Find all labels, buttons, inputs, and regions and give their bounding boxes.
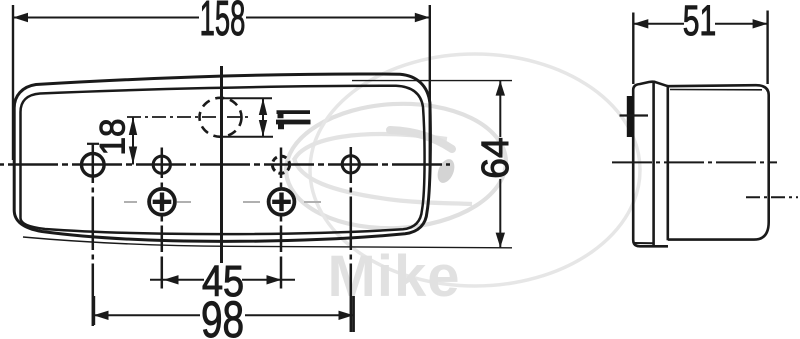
dim 158 arrow left (13, 13, 28, 22)
side view mounting tab (627, 96, 633, 137)
svg-text:Mike: Mike (328, 244, 461, 309)
svg-text:98: 98 (201, 291, 244, 339)
screw 2 cross (272, 200, 291, 204)
svg-text:158: 158 (200, 0, 246, 46)
hole circle 2 (153, 156, 170, 173)
hole circle 3 vertical centerline / 45 extension (280, 148, 283, 289)
dim 158 right extension line (429, 5, 431, 163)
dim 158 arrow right (415, 13, 430, 22)
dim text 158 (94, 0, 716, 339)
watermark teardrop (434, 157, 457, 186)
horizontal centerline of front view (0, 163, 450, 166)
hole circle 2 vertical centerline / 45 extension (161, 148, 164, 289)
dim 11 vertical line with arrows (262, 98, 264, 136)
dim 45 arrows (164, 275, 179, 284)
dim 51 left extension line (632, 13, 634, 85)
dim 64 bottom extension (tangent) line (23, 237, 512, 248)
dim 158 left extension line (12, 5, 14, 160)
dim 11 top bar (223, 97, 272, 99)
oval hole horizontal centerline (127, 116, 250, 118)
lamp lens inner outline (21, 86, 425, 234)
tab centerline (620, 114, 649, 116)
side view housing outline (668, 85, 769, 240)
dim 51 line (633, 23, 684, 25)
dim 98 arrows (94, 311, 109, 320)
dim 158 line (13, 17, 199, 19)
hole circle 1 vertical centerline / 98 extension (92, 144, 95, 327)
screw 1 side dashes (124, 201, 137, 203)
hole circle 1 (82, 154, 105, 177)
dim 51 right extension line (766, 11, 768, 85)
dim 98 right extension line (352, 296, 355, 332)
screw 1 circle (149, 189, 175, 215)
svg-text:18: 18 (94, 119, 133, 156)
dim 51 arrows (633, 19, 648, 28)
side view lens middle line (652, 81, 655, 246)
oval hole (dashed) (200, 98, 242, 137)
dim 64 top extension line (352, 80, 512, 82)
side view horizontal centerline (612, 161, 777, 163)
svg-text:51: 51 (683, 0, 716, 44)
dim 64 line with arrows (499, 81, 501, 137)
screw 2 side dashes (243, 201, 260, 203)
dim text 11 rotated (hand-drawn bars) (276, 110, 311, 129)
screw 1 cross (153, 200, 172, 204)
hole circle 4 (342, 156, 359, 173)
side view housing inner top line (670, 89, 762, 91)
svg-text:64: 64 (474, 137, 516, 178)
side view aux centerline right (746, 196, 798, 198)
watermark inner upper arc (294, 134, 447, 160)
hole circle 3 (dashed) (272, 156, 289, 173)
watermark ellipse outer (283, 54, 640, 286)
dim 98 left extension line (92, 296, 95, 325)
dim 45 line (150, 279, 204, 281)
side view lens inner bottom line (633, 242, 653, 244)
watermark inner lower arc (294, 158, 472, 204)
watermark big orbit ring (310, 54, 640, 286)
side view lens outer edge (633, 90, 668, 246)
dim 11 bottom bar (220, 136, 273, 138)
lamp body outer outline (14, 74, 430, 241)
dim 18 vertical line with arrows (132, 117, 134, 165)
vertical centerline of front view (220, 66, 223, 263)
screw 2 circle (269, 189, 295, 215)
watermark swoosh (390, 130, 452, 149)
hole circle 4 vertical centerline / 98 extension (350, 147, 353, 332)
dim 98 line (94, 314, 201, 316)
